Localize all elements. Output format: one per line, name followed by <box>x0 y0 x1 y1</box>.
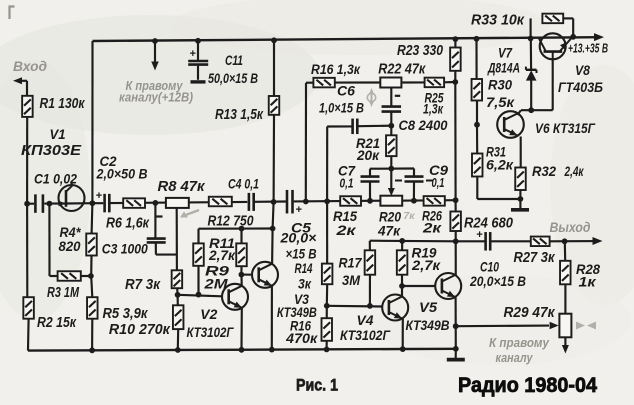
svg-text:С6: С6 <box>337 83 355 99</box>
svg-text:С10: С10 <box>480 259 499 275</box>
svg-text:6,2к: 6,2к <box>486 157 514 173</box>
svg-text:R10 270к: R10 270к <box>109 322 171 338</box>
svg-text:V4: V4 <box>357 312 374 328</box>
svg-text:47к: 47к <box>377 223 401 239</box>
svg-text:С8 2400: С8 2400 <box>399 117 448 133</box>
svg-text:R23 330: R23 330 <box>397 43 443 59</box>
svg-text:R8 47к: R8 47к <box>158 179 206 195</box>
svg-text:1,0×15 В: 1,0×15 В <box>319 101 364 116</box>
svg-text:Вход: Вход <box>13 58 47 74</box>
svg-text:+13.+35 В: +13.+35 В <box>568 41 608 56</box>
svg-text:R30: R30 <box>488 77 512 93</box>
svg-text:1к: 1к <box>579 274 597 290</box>
svg-text:R3 1М: R3 1М <box>47 285 80 301</box>
svg-text:V1: V1 <box>50 126 66 142</box>
svg-text:1,3к: 1,3к <box>423 102 444 117</box>
svg-text:R16 1,3к: R16 1,3к <box>311 62 361 77</box>
svg-text:R24 680: R24 680 <box>464 216 513 232</box>
svg-text:R6 1,6к: R6 1,6к <box>106 216 150 232</box>
svg-text:R5 3,9к: R5 3,9к <box>103 306 149 322</box>
svg-text:3к: 3к <box>298 276 312 292</box>
svg-text:R33 10к: R33 10к <box>471 13 525 29</box>
svg-text:С4 0,1: С4 0,1 <box>228 176 259 192</box>
svg-text:К правому: К правому <box>489 336 550 350</box>
svg-text:2к: 2к <box>422 220 442 236</box>
svg-text:V7: V7 <box>498 45 513 61</box>
svg-text:Радио 1980-04: Радио 1980-04 <box>458 373 597 397</box>
svg-text:2,0×50 В: 2,0×50 В <box>96 167 148 182</box>
svg-text:Выход: Выход <box>550 220 591 235</box>
svg-text:R27 3к: R27 3к <box>514 250 556 266</box>
svg-text:V6 КТ315Г: V6 КТ315Г <box>535 120 596 136</box>
svg-text:каналу(+12В): каналу(+12В) <box>119 90 193 105</box>
svg-text:С3 1000: С3 1000 <box>102 241 148 257</box>
svg-text:0,1: 0,1 <box>432 175 445 190</box>
svg-text:2,4к: 2,4к <box>564 163 584 179</box>
svg-text:R1 130к: R1 130к <box>40 95 86 112</box>
svg-text:V2: V2 <box>200 306 217 322</box>
svg-text:+: + <box>296 204 302 216</box>
svg-text:820: 820 <box>59 238 81 254</box>
svg-text:R2 15к: R2 15к <box>37 315 77 331</box>
svg-text:R12 750: R12 750 <box>208 214 254 230</box>
svg-text:20,0×: 20,0× <box>279 231 316 246</box>
svg-text:7,5к: 7,5к <box>486 94 515 110</box>
svg-text:Д814А: Д814А <box>487 61 520 76</box>
svg-text:0,1: 0,1 <box>340 176 354 191</box>
svg-text:КП303Е: КП303Е <box>21 143 82 159</box>
svg-text:R13 1,5к: R13 1,5к <box>215 107 264 123</box>
svg-text:R29 47к: R29 47к <box>504 305 556 321</box>
svg-text:3М: 3М <box>342 272 360 288</box>
svg-text:+: + <box>190 48 196 60</box>
svg-text:каналу: каналу <box>496 351 534 365</box>
svg-text:R7 3к: R7 3к <box>125 277 161 293</box>
svg-text:КТ3102Г: КТ3102Г <box>340 328 391 343</box>
svg-text:V5: V5 <box>419 299 437 315</box>
svg-text:2к: 2к <box>335 222 356 238</box>
svg-text:20,0×15 В: 20,0×15 В <box>469 274 526 289</box>
svg-text:С11: С11 <box>225 52 243 68</box>
svg-text:V8: V8 <box>575 62 590 78</box>
svg-text:R22 47к: R22 47к <box>378 62 426 78</box>
svg-text:КТ3102Г: КТ3102Г <box>187 324 235 340</box>
svg-text:R17: R17 <box>339 255 363 271</box>
svg-text:С1 0,02: С1 0,02 <box>34 171 77 187</box>
svg-text:R14: R14 <box>295 260 313 276</box>
svg-text:Рис. 1: Рис. 1 <box>296 377 338 395</box>
svg-text:2М: 2М <box>203 276 228 292</box>
svg-text:2,7к: 2,7к <box>411 258 441 273</box>
svg-text:7к: 7к <box>403 210 415 222</box>
svg-text:КТ349В: КТ349В <box>406 317 450 333</box>
svg-text:ГТ403Б: ГТ403Б <box>558 79 603 95</box>
svg-text:+: + <box>96 190 102 202</box>
svg-text:R32: R32 <box>532 163 556 179</box>
svg-text:50,0×15 В: 50,0×15 В <box>208 71 258 86</box>
svg-text:20к: 20к <box>356 147 380 163</box>
svg-text:470к: 470к <box>285 331 318 346</box>
svg-text:2,7к: 2,7к <box>208 247 236 263</box>
